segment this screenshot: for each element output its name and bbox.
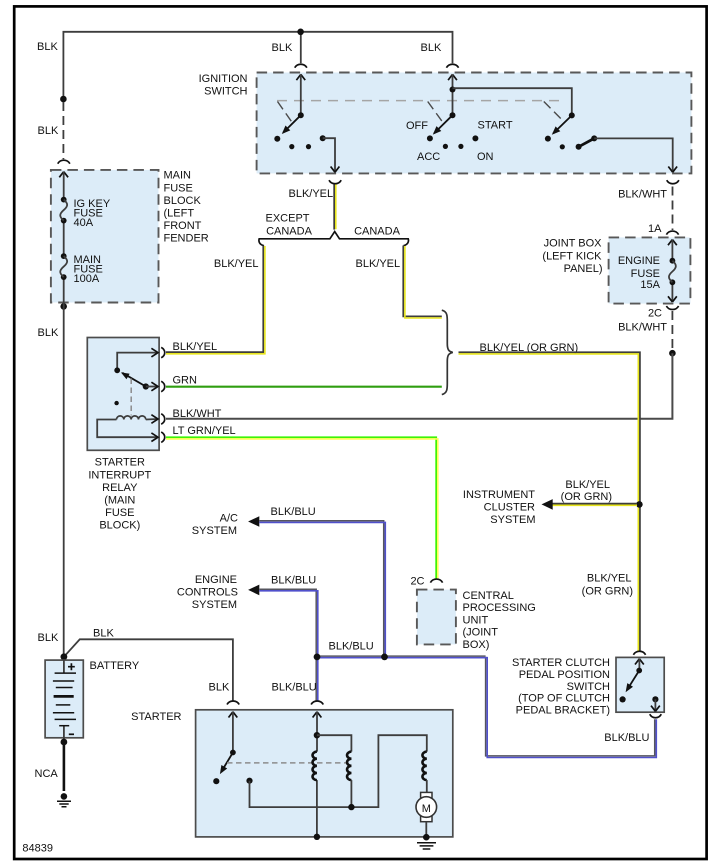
svg-text:BLK/BLU: BLK/BLU	[604, 732, 649, 744]
connector 2C below joint box	[666, 306, 678, 310]
node: junction on BLK/WHT	[669, 350, 676, 357]
connector 2C into CPU	[430, 579, 442, 583]
node: junction feeding right section	[450, 87, 456, 93]
arrow leaving ignition switch (BLK/YEL)	[331, 167, 340, 173]
arrow entering clutch switch	[635, 659, 644, 665]
joint box (left kick panel)	[609, 237, 691, 303]
connector above starter clutch pedal position switch	[633, 651, 645, 655]
switch SW1 output contact	[320, 135, 326, 141]
svg-text:BLK/YEL: BLK/YEL	[173, 341, 218, 353]
wire from junction to right section pivot	[453, 88, 572, 115]
clutch switch thrown contact	[620, 696, 626, 702]
connector into main fuse block	[58, 160, 70, 164]
svg-text:MAIN: MAIN	[164, 170, 192, 182]
relay coil	[117, 416, 146, 420]
fuse F2: MAIN FUSE 100A	[61, 253, 67, 259]
svg-text:BLK: BLK	[93, 628, 114, 640]
svg-text:BLK/WHT: BLK/WHT	[618, 189, 667, 201]
svg-text:EXCEPT: EXCEPT	[265, 213, 309, 225]
wire BLK/YEL from ignition down to country split	[333, 185, 335, 230]
arrow entering starter (BLK/BLU)	[313, 712, 322, 718]
svg-text:BLK/YEL: BLK/YEL	[289, 188, 334, 200]
svg-text:INTERRUPT: INTERRUPT	[88, 469, 151, 481]
relay internal wire: coil to BLK/WHT pin	[146, 418, 158, 421]
switch SW1 open contacts	[289, 144, 294, 149]
svg-text:LT GRN/YEL: LT GRN/YEL	[173, 425, 236, 437]
svg-text:ENGINE: ENGINE	[618, 255, 660, 267]
wire inside fuse block	[63, 172, 65, 303]
node: junction on left BLK wire	[60, 96, 67, 103]
relay internal wire: coil to LT GRN/YEL pin	[97, 420, 157, 438]
switch SW3 closed contact bar	[576, 144, 582, 150]
svg-text:(JOINT: (JOINT	[463, 627, 499, 639]
arrow to instrument cluster system	[542, 499, 553, 510]
relay mechanical dashed link	[130, 379, 132, 416]
wire to starter switch pivot	[232, 712, 234, 753]
wire: dashed BLK down to main fuse block	[62, 102, 64, 159]
relay switch arm	[122, 373, 146, 387]
wire BLK battery to starter	[64, 639, 233, 701]
arrows at relay pins	[151, 348, 158, 357]
svg-text:BLK/BLU: BLK/BLU	[272, 681, 317, 693]
connector above starter solenoid entry	[311, 701, 323, 705]
wire BLK/YEL (OR GRN) branch to instrument cluster	[552, 503, 637, 505]
svg-text:100A: 100A	[74, 273, 100, 285]
battery plus sign	[68, 663, 75, 670]
svg-text:GRN: GRN	[173, 374, 198, 386]
svg-text:STARTER: STARTER	[131, 711, 181, 723]
svg-text:PROCESSING: PROCESSING	[463, 602, 536, 614]
connector at relay pin 2	[161, 381, 165, 391]
connector below clutch switch	[650, 714, 662, 718]
connector at relay pin 1	[161, 347, 165, 357]
svg-text:INSTRUMENT: INSTRUMENT	[463, 489, 535, 501]
mechanical link diagonal (middle)	[428, 102, 444, 123]
wire LT GRN/YEL from relay to CPU joint box	[166, 437, 436, 579]
svg-text:CONTROLS: CONTROLS	[177, 587, 238, 599]
node: junction on top BLK bus	[297, 29, 304, 36]
svg-text:CANADA: CANADA	[266, 225, 313, 237]
svg-text:RELAY: RELAY	[102, 482, 138, 494]
svg-text:BLK/YEL: BLK/YEL	[587, 573, 632, 585]
wire: dashed BLK/WHT below joint box	[671, 311, 673, 350]
svg-text:BLK/BLU: BLK/BLU	[271, 574, 316, 586]
ground G2 (starter motor)	[423, 834, 430, 841]
svg-text:A/C: A/C	[220, 512, 238, 524]
wire BLK/BLU from clutch switch looping to starter node	[486, 657, 655, 756]
svg-text:BLK/WHT: BLK/WHT	[173, 408, 222, 420]
svg-text:PEDAL POSITION: PEDAL POSITION	[519, 669, 610, 681]
clutch switch output contact	[652, 696, 658, 702]
mechanical link diagonal (right)	[544, 102, 561, 119]
svg-text:BLK/BLU: BLK/BLU	[271, 506, 316, 518]
relay NC contact	[114, 401, 118, 405]
svg-text:2C: 2C	[410, 575, 424, 587]
wire inside joint box	[671, 240, 673, 302]
connector 1A into joint box	[666, 231, 678, 235]
splice split: EXCEPT CANADA / CANADA	[259, 232, 409, 246]
svg-text:CANADA: CANADA	[354, 225, 401, 237]
relay switch pivot	[114, 367, 120, 373]
arrow entering ignition switch left	[296, 74, 305, 80]
arrow to engine controls system	[248, 585, 259, 596]
wire BLK/YEL except-canada branch down to relay	[166, 246, 263, 353]
svg-text:ACC: ACC	[417, 151, 440, 163]
svg-text:JOINT BOX: JOINT BOX	[544, 238, 603, 250]
relay internal wire from pivot to BLK/YEL pin	[117, 353, 157, 371]
svg-text:SWITCH: SWITCH	[567, 681, 610, 693]
svg-text:BLK: BLK	[421, 42, 442, 54]
svg-text:FUSE: FUSE	[105, 507, 134, 519]
node: junction below fuse block	[60, 303, 67, 310]
wire field winding to motor	[426, 780, 428, 792]
wire from SW3 to BLK/WHT exit	[594, 138, 673, 170]
svg-text:40A: 40A	[74, 217, 94, 229]
connector above ignition switch left entry	[295, 64, 307, 67]
svg-text:BLK/YEL: BLK/YEL	[214, 258, 259, 270]
arrow to A/C system	[248, 516, 259, 527]
svg-text:BLK: BLK	[37, 41, 58, 53]
starter switch output contact	[246, 778, 252, 784]
svg-text:M: M	[422, 803, 431, 815]
svg-text:BLOCK): BLOCK)	[99, 520, 140, 532]
svg-text:PANEL): PANEL)	[564, 263, 603, 275]
svg-text:STARTER CLUTCH: STARTER CLUTCH	[512, 657, 610, 669]
svg-text:SYSTEM: SYSTEM	[192, 525, 237, 537]
node: junction to instrument cluster	[636, 501, 643, 508]
relay internal wire GRN pin	[146, 386, 158, 388]
arrow leaving ignition switch (BLK/WHT)	[668, 167, 677, 173]
coil L1 (pull-in winding)	[313, 752, 317, 781]
node: solenoid leg to case ground	[314, 834, 320, 840]
switch SW3 open contact	[560, 144, 565, 149]
svg-text:BLK/YEL: BLK/YEL	[565, 479, 610, 491]
wire BLK/BLU junction bus	[317, 655, 486, 657]
svg-text:CLUSTER: CLUSTER	[484, 502, 535, 514]
mechanical link dashed line	[277, 100, 561, 102]
node: junction solenoid branch	[314, 732, 320, 738]
battery box	[45, 660, 83, 738]
connector above starter switch entry	[227, 701, 239, 705]
connector above ignition switch middle entry	[446, 64, 458, 67]
svg-text:IGNITION: IGNITION	[199, 73, 248, 85]
wire from output contact to box edge	[654, 699, 656, 710]
svg-text:BLK: BLK	[38, 632, 59, 644]
svg-text:PEDAL BRACKET): PEDAL BRACKET)	[516, 704, 610, 716]
switch SW3 thrown contact	[545, 136, 551, 142]
switch SW1 thrown contact	[274, 136, 280, 142]
motor M (starter motor)	[421, 792, 432, 798]
connector below ignition switch (BLK/YEL)	[329, 180, 341, 184]
arrow entering ignition switch middle	[448, 74, 457, 80]
wire BLK/BLU to A/C system	[259, 521, 383, 655]
svg-text:(TOP OF CLUTCH: (TOP OF CLUTCH	[518, 693, 610, 705]
starter interrupt relay box	[87, 338, 159, 451]
svg-text:1A: 1A	[648, 223, 662, 235]
wire branch to hold-in coil	[317, 735, 352, 751]
starter box	[196, 710, 453, 837]
wire: top BLK bus from battery feed to ignition switch	[63, 32, 452, 99]
coil L3 (motor field winding)	[422, 752, 426, 781]
starter switch pivot	[230, 750, 236, 756]
svg-text:BLK/BLU: BLK/BLU	[329, 641, 374, 653]
switch SW3 arm	[553, 115, 572, 133]
fuse F3: ENGINE FUSE 15A	[670, 258, 676, 264]
clutch switch arm	[627, 671, 639, 690]
svg-text:FENDER: FENDER	[164, 233, 209, 245]
wire BLK/BLU engine controls / starter feed	[259, 589, 316, 701]
node: junction hold-in coil / contact run	[348, 804, 354, 810]
wire: drop to ignition switch left section	[300, 32, 302, 63]
main fuse block box (left front fender)	[51, 170, 159, 303]
svg-text:UNIT: UNIT	[463, 614, 489, 626]
svg-text:BLK: BLK	[209, 681, 230, 693]
wire: BLK from fuse block down to battery	[63, 303, 65, 657]
starter switch arm	[221, 753, 233, 772]
wire BLK/YEL canada branch down to splice brace	[403, 246, 442, 317]
svg-text:BLK: BLK	[38, 125, 59, 137]
switch SW2 ACC / ON contacts	[443, 144, 448, 149]
connector at relay pin 3	[161, 414, 165, 424]
arrow leaving clutch switch	[651, 706, 660, 712]
svg-text:ENGINE: ENGINE	[195, 574, 237, 586]
switch SW2 OFF contact	[427, 135, 433, 141]
splice brace joining BLK/YEL and GRN	[442, 310, 453, 394]
starter clutch pedal position switch box	[616, 657, 664, 712]
svg-text:FUSE: FUSE	[631, 268, 660, 280]
node: junction A/C branch	[381, 654, 388, 661]
svg-text:START: START	[478, 120, 513, 132]
svg-text:(LEFT KICK: (LEFT KICK	[542, 250, 602, 262]
starter mechanical dashed link	[227, 762, 348, 764]
central processing unit box	[417, 590, 456, 645]
switch SW2 arm	[434, 115, 452, 133]
ignition switch box	[257, 73, 692, 174]
wire NCA battery to ground	[63, 742, 66, 791]
svg-text:SYSTEM: SYSTEM	[490, 514, 535, 526]
ground G1 (battery)	[61, 793, 68, 800]
wire to clutch switch pivot	[638, 659, 640, 671]
clutch switch pivot	[636, 668, 642, 674]
relay arm contact on GRN pin	[143, 383, 149, 389]
switch SW2 START contact	[472, 135, 478, 141]
svg-text:NCA: NCA	[35, 768, 59, 780]
wire BLK/YEL (OR GRN) from brace to clutch switch	[459, 352, 640, 651]
svg-text:CENTRAL: CENTRAL	[463, 590, 514, 602]
wire from SW1 output to BLK/YEL exit	[323, 138, 335, 170]
svg-text:BATTERY: BATTERY	[90, 660, 140, 672]
svg-text:84839: 84839	[22, 843, 53, 855]
node: junction engine controls / starter	[314, 654, 321, 661]
arrow entering joint box	[668, 240, 677, 246]
battery plates	[55, 672, 76, 674]
svg-text:2C: 2C	[648, 307, 662, 319]
svg-text:SYSTEM: SYSTEM	[192, 599, 237, 611]
svg-text:BLK: BLK	[272, 42, 293, 54]
svg-text:STARTER: STARTER	[95, 457, 145, 469]
battery internal stubs	[63, 660, 65, 741]
svg-text:SWITCH: SWITCH	[204, 86, 247, 98]
svg-text:ON: ON	[477, 151, 494, 163]
svg-text:BLOCK: BLOCK	[164, 195, 202, 207]
svg-text:(MAIN: (MAIN	[104, 495, 135, 507]
svg-text:(OR GRN): (OR GRN)	[582, 586, 633, 598]
wire to left switch pivot	[300, 74, 302, 115]
wire BLK/WHT from junction down and west to relay	[166, 353, 672, 419]
switch SW1 arm	[283, 115, 301, 132]
starter switch thrown contact	[213, 778, 219, 784]
arrow leaving joint box	[668, 296, 677, 302]
connector at relay pin 4	[161, 432, 165, 442]
node: battery positive junction	[61, 653, 68, 660]
switch SW1 pivot (left section)	[298, 112, 304, 118]
wire GRN from relay to splice brace	[166, 386, 442, 388]
svg-text:BOX): BOX)	[463, 639, 490, 651]
connector below ignition switch (BLK/WHT)	[667, 180, 679, 184]
wire starter solenoid main leg	[316, 712, 318, 837]
svg-text:(LEFT: (LEFT	[164, 208, 195, 220]
svg-text:BLK/YEL: BLK/YEL	[356, 258, 401, 270]
svg-text:15A: 15A	[640, 279, 660, 291]
svg-text:FUSE: FUSE	[164, 182, 193, 194]
switch SW3 pivot (right section)	[569, 112, 575, 118]
wire: dashed BLK/WHT to joint box	[672, 187, 674, 231]
mechanical link diagonal (left)	[278, 102, 292, 122]
switch SW2 pivot (middle section)	[450, 112, 456, 118]
svg-text:OFF: OFF	[406, 120, 428, 132]
arrow entering starter (BLK)	[229, 712, 238, 718]
battery minus sign	[69, 733, 74, 735]
svg-text:BLK/WHT: BLK/WHT	[618, 321, 667, 333]
wire from hold-in coil to contact run	[350, 780, 352, 807]
coil L2 (hold-in winding)	[347, 752, 351, 781]
svg-text:BLK: BLK	[38, 327, 59, 339]
wire to middle switch pivot	[452, 74, 454, 115]
svg-text:(OR GRN): (OR GRN)	[561, 491, 612, 503]
node: battery negative junction	[61, 739, 68, 746]
arrow entering fuse block	[59, 172, 68, 178]
wire contact run to motor feed	[250, 735, 427, 807]
wire motor to ground	[425, 822, 427, 837]
svg-text:FRONT: FRONT	[164, 220, 202, 232]
fuse F1: IG KEY FUSE 40A	[61, 197, 67, 203]
